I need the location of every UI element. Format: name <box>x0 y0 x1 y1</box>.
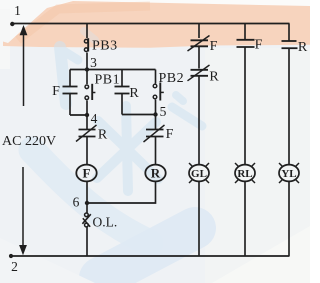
svg-text:3: 3 <box>90 55 97 70</box>
svg-text:2: 2 <box>11 259 18 274</box>
svg-text:F: F <box>210 39 218 54</box>
svg-text:R: R <box>298 40 308 55</box>
svg-text:R: R <box>151 166 161 181</box>
svg-text:F: F <box>83 166 91 181</box>
svg-text:4: 4 <box>91 111 98 126</box>
svg-text:5: 5 <box>160 104 167 119</box>
svg-text:AC 220V: AC 220V <box>2 134 56 149</box>
svg-text:GL: GL <box>191 168 207 180</box>
svg-text:R: R <box>209 70 219 85</box>
svg-text:PB1: PB1 <box>95 73 121 88</box>
svg-text:1: 1 <box>14 3 21 18</box>
svg-text:F: F <box>52 84 60 99</box>
svg-text:PB2: PB2 <box>159 71 185 86</box>
svg-text:PB3: PB3 <box>92 39 118 54</box>
svg-text:6: 6 <box>73 195 80 210</box>
svg-text:F: F <box>255 38 263 53</box>
svg-text:YL: YL <box>281 168 296 180</box>
svg-text:R: R <box>129 86 139 101</box>
svg-text:O.L.: O.L. <box>93 215 118 230</box>
svg-text:RL: RL <box>237 168 252 180</box>
svg-text:R: R <box>98 128 108 143</box>
svg-text:F: F <box>166 127 174 142</box>
